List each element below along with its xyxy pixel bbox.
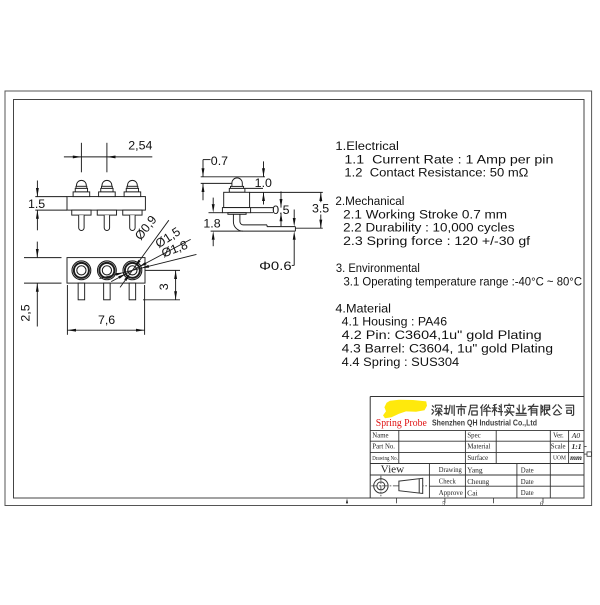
svg-text:Drawing No.: Drawing No. <box>372 455 398 462</box>
svg-text:mm: mm <box>570 453 582 462</box>
projection symbol centerlines <box>371 485 427 487</box>
char 科 <box>492 404 502 415</box>
front view: pogo pin 2 plunger dome <box>102 180 112 186</box>
svg-text:Material: Material <box>467 444 490 451</box>
front view: connector housing body <box>67 197 145 211</box>
svg-text:5: 5 <box>442 500 445 507</box>
char 市 <box>456 404 466 415</box>
svg-text:Shenzhen QH Industrial Co.,Ltd: Shenzhen QH Industrial Co.,Ltd <box>432 418 537 428</box>
bottom center fold mark <box>346 498 348 503</box>
svg-text:4.1 Housing : PA46: 4.1 Housing : PA46 <box>342 315 448 329</box>
svg-text:Yang: Yang <box>467 466 483 475</box>
side view: plunger dome <box>232 178 242 186</box>
svg-text:3. Environmental: 3. Environmental <box>336 261 420 275</box>
front view: pin 2 solder tail (round tip) <box>104 215 109 230</box>
svg-text:1.1 Current Rate : 1 Amp per: 1.1 Current Rate : 1 Amp per pin <box>344 152 553 166</box>
svg-text:2.Mechanical: 2.Mechanical <box>335 194 404 208</box>
dimension 1.5 dimension line and arrows <box>36 181 38 197</box>
title block vertical rules <box>398 430 400 463</box>
barrel top extension line <box>250 191 323 193</box>
front view: pin 3 flange <box>124 192 141 197</box>
svg-text:4.3 Barrel: C3604, 1u" gold Pl: 4.3 Barrel: C3604, 1u" gold Plating <box>342 342 553 356</box>
dimension 0.5 <box>280 191 282 207</box>
bottom view: pin 1 tail <box>78 283 85 300</box>
dimension 1.8 <box>212 198 214 205</box>
svg-text:Φ0.6: Φ0.6 <box>259 259 292 273</box>
title block outline <box>370 396 584 398</box>
front view: pin 2 flange <box>99 192 116 197</box>
Chinese company name 深圳市启华科实业有限公司 (drawn strokes) <box>432 404 574 416</box>
leader line for Ø1,8 <box>99 254 196 278</box>
side view: flange step <box>228 213 246 215</box>
char 公 <box>553 405 562 415</box>
svg-text:UOM: UOM <box>553 455 566 462</box>
svg-text:View: View <box>381 463 405 475</box>
border zone tick marks (bottom edge) <box>396 498 398 503</box>
dimension Phi 0.6 leader <box>293 210 295 219</box>
svg-text:Spring Probe: Spring Probe <box>376 417 427 429</box>
dimension 1.5 extension lines <box>35 196 67 198</box>
front view: pin 2 bottom collar <box>97 210 116 215</box>
bottom view: pin 2 tail <box>104 283 111 300</box>
dimension 2,5 extension lines <box>24 257 62 259</box>
front view: pin 3 neck step <box>127 186 138 188</box>
char 圳 <box>444 405 454 415</box>
dimension 0.7 <box>202 160 204 177</box>
neck step extension line <box>245 187 263 189</box>
front view: pin 2 neck step <box>102 186 113 188</box>
bottom view: pin 1 barrel circles <box>72 261 91 280</box>
dimension 2,5 dimension line and arrows <box>36 242 38 258</box>
svg-text:Cheung: Cheung <box>467 477 489 486</box>
svg-text:3.5: 3.5 <box>312 201 329 215</box>
front view: pin 3 solder tail (round tip) <box>130 215 135 230</box>
leader line for Ø1,5 <box>111 239 190 281</box>
svg-text:6: 6 <box>540 500 543 507</box>
svg-text:Name: Name <box>372 432 388 439</box>
svg-text:1:1: 1:1 <box>571 442 581 451</box>
svg-text:Scale: Scale <box>551 444 566 451</box>
char 实 <box>505 404 514 416</box>
char 深 <box>432 405 442 416</box>
dimension 2,54 dimension line <box>64 156 152 158</box>
svg-text:1.Electrical: 1.Electrical <box>335 139 399 153</box>
dimension 7,6 extension lines <box>66 285 68 335</box>
svg-text:1.8: 1.8 <box>203 216 220 230</box>
front view: pin 3 bottom collar <box>123 210 142 215</box>
svg-text:Cai: Cai <box>467 488 478 497</box>
yellow highlighter logo blob <box>383 400 427 418</box>
svg-text:Date: Date <box>521 479 534 486</box>
char 业 <box>516 405 526 415</box>
svg-text:Part No.: Part No. <box>372 444 395 451</box>
front view: pin 1 flange <box>73 192 90 197</box>
dimension 0.5 extension lines <box>251 207 273 209</box>
svg-text:7,6: 7,6 <box>98 313 115 327</box>
dimension 3 extension lines <box>145 269 180 271</box>
dimension 2,54 extension line (pin 2 center) <box>106 143 108 173</box>
svg-text:1.2 Contact Resistance: 50 mΩ: 1.2 Contact Resistance: 50 mΩ <box>344 166 528 180</box>
svg-text:Surface: Surface <box>467 455 488 462</box>
svg-text:A0: A0 <box>571 431 581 440</box>
svg-text:1.0: 1.0 <box>255 176 272 190</box>
dimension 3 dimension line <box>175 270 177 299</box>
svg-text:0.7: 0.7 <box>211 154 228 168</box>
front view: pin 1 neck step <box>76 186 87 188</box>
right edge centering mark square <box>587 452 591 456</box>
side view: bent solder leg <box>233 214 295 231</box>
svg-text:2.1 Working Stroke 0.7 mm: 2.1 Working Stroke 0.7 mm <box>343 207 507 221</box>
side view: plunger neck <box>231 186 244 188</box>
svg-text:Spec: Spec <box>467 432 480 439</box>
side view: barrel <box>224 192 250 207</box>
front view: pogo pin 1 plunger dome <box>77 180 87 186</box>
char 限 <box>541 405 550 415</box>
bottom view: housing body outline <box>67 258 145 284</box>
svg-text:2.2 Durability : 10,000 cycles: 2.2 Durability : 10,000 cycles <box>343 221 514 235</box>
svg-text:4.4 Spring : SUS304: 4.4 Spring : SUS304 <box>342 355 460 369</box>
svg-text:Approve: Approve <box>439 490 463 497</box>
dimension 1.0 <box>263 161 265 176</box>
char 华 <box>481 405 491 416</box>
third-angle projection symbol: circle view <box>374 479 388 493</box>
leg bottom extension line (3.5 dim) <box>295 227 322 229</box>
inner border frame <box>14 100 585 499</box>
leader line for Ø0,9 <box>120 220 169 287</box>
side view: free-tip reference line <box>201 176 265 178</box>
side view: flange <box>222 208 250 213</box>
dimension 2,54 extension line (pin 1 center) <box>80 143 82 173</box>
svg-text:4.2 Pin: C3604,1u" gold Platin: 4.2 Pin: C3604,1u" gold Plating <box>342 328 542 342</box>
bottom view: pin 3 tail <box>129 283 136 300</box>
svg-text:1.5: 1.5 <box>28 197 45 211</box>
svg-text:Ver.: Ver. <box>553 432 564 439</box>
svg-text:2,5: 2,5 <box>19 304 33 321</box>
char 有 <box>528 404 538 415</box>
projection symbol: cone view <box>399 478 423 493</box>
bottom view: pin 3 barrel circles <box>123 261 142 280</box>
svg-text:3: 3 <box>157 283 171 290</box>
outer border frame <box>5 91 592 506</box>
bottom view: pin 2 barrel circles <box>98 261 117 280</box>
front view: pogo pin 3 plunger dome <box>128 180 138 186</box>
svg-text:Date: Date <box>521 490 534 497</box>
svg-text:2.3 Spring force : 120 +/-30 g: 2.3 Spring force : 120 +/-30 gf <box>343 234 531 248</box>
char 司 <box>566 405 574 415</box>
front view: pin 1 bottom collar <box>72 210 91 215</box>
title block horizontal rules <box>370 429 584 431</box>
svg-text:4.Material: 4.Material <box>335 301 391 315</box>
side view: compressed-tip reference line <box>201 182 233 184</box>
svg-text:Date: Date <box>521 467 534 474</box>
front view: pin 1 solder tail (round tip) <box>79 215 84 230</box>
svg-text:Drawing: Drawing <box>439 467 463 474</box>
dimension 1.8 extension lines <box>209 212 223 214</box>
svg-text:Check: Check <box>439 478 457 485</box>
dimension 3.5 <box>320 192 322 202</box>
char 启 <box>469 405 478 415</box>
dimension 7,6 dimension line <box>67 329 144 331</box>
svg-text:3.1 Operating temperature rang: 3.1 Operating temperature range :-40°C ~… <box>344 275 583 289</box>
svg-text:2,54: 2,54 <box>128 139 152 153</box>
